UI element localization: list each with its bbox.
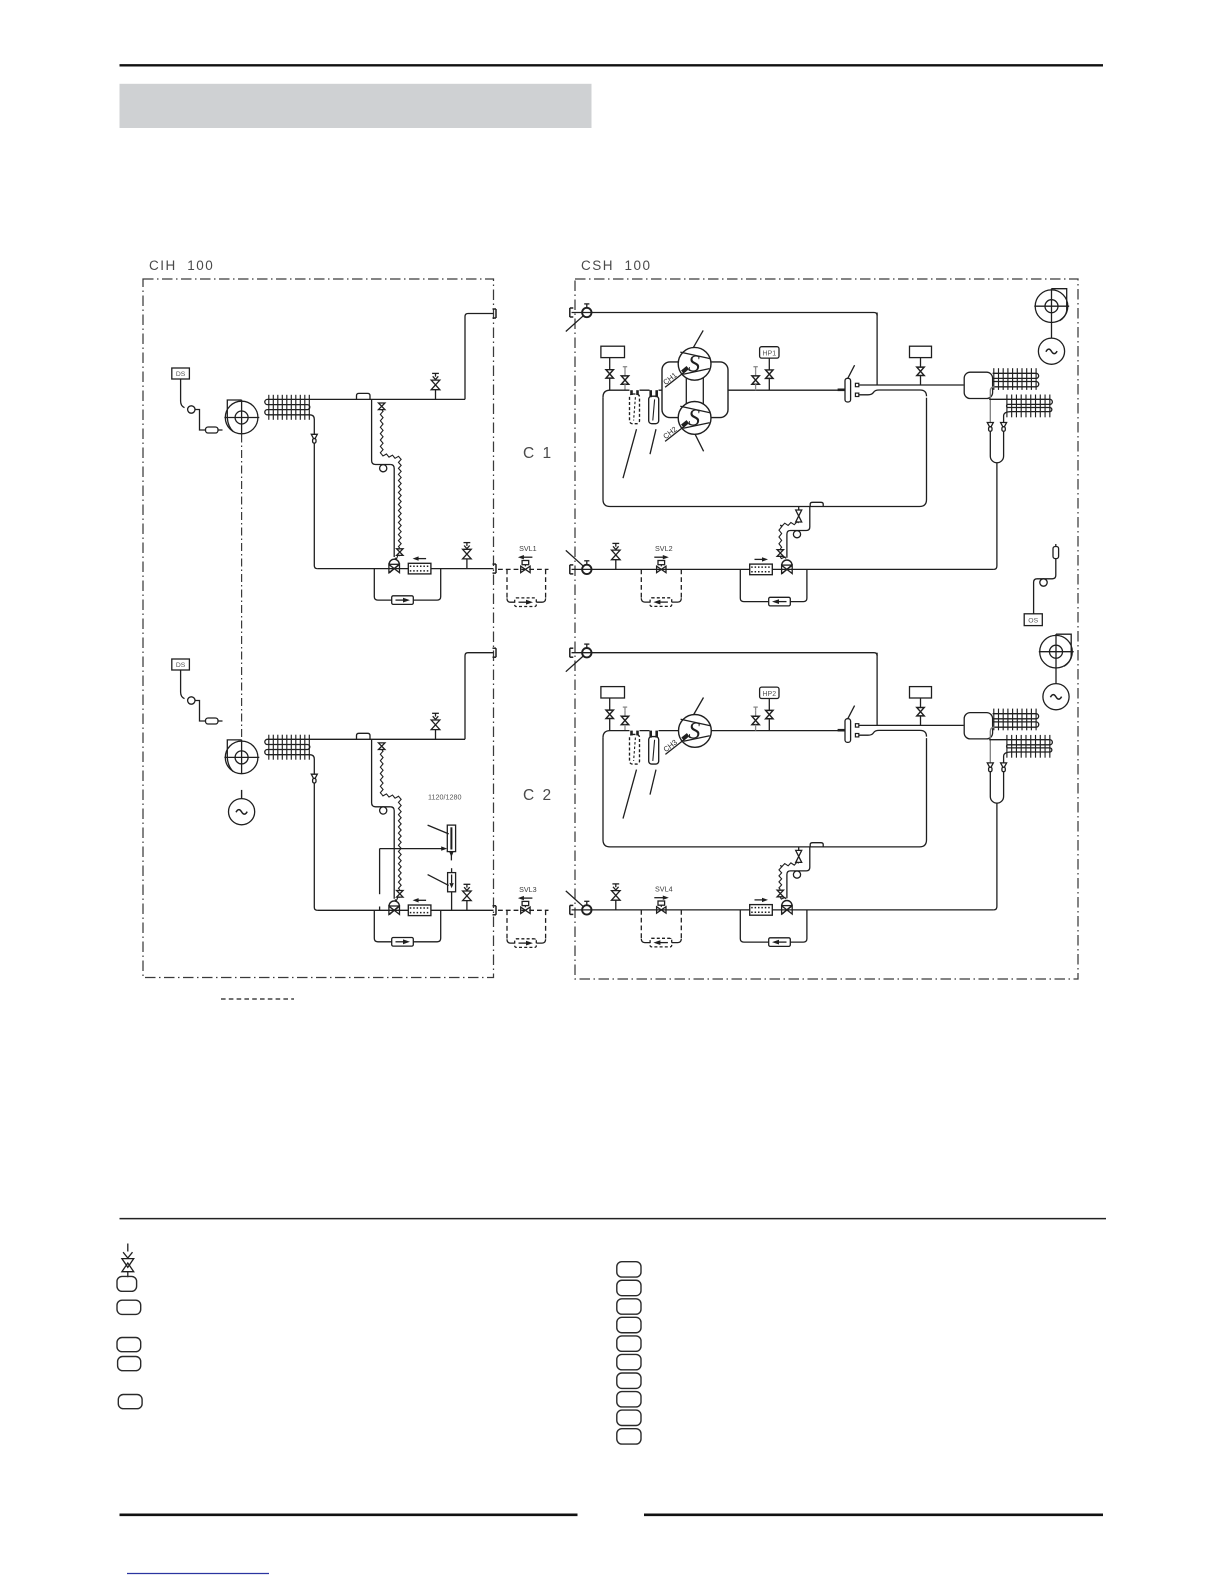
condenser coil bottom row (circuit 1): [989, 395, 1052, 423]
capillary valve (circuit 2): [796, 850, 802, 862]
sight glass on shell bottom (circuit 2): [810, 843, 823, 847]
service valve on liquid line (circuit 2): [612, 884, 621, 910]
check valve at drier (circuit 2): [769, 938, 791, 947]
capillary into TXV head (circuit 1): [395, 555, 400, 558]
compressor mounting frame (circuit 1): [662, 362, 728, 418]
legend key box R8: [617, 1392, 641, 1407]
liquid line to TXV (circuit 2): [390, 807, 394, 899]
HP switch valve (circuit 2): [766, 699, 773, 731]
wire bulb to damper (circuit 1): [195, 410, 206, 431]
pressure switch DS (circuit 1): [172, 368, 190, 379]
charging plate assembly (circuit 2): [838, 706, 859, 743]
distributor right (circuit 2): [1001, 763, 1007, 772]
fan-motor shaft (circuit 2): [1055, 668, 1057, 684]
connector CSH top (circuit 2): [570, 648, 574, 657]
connector CSH bottom (circuit 2): [570, 905, 574, 914]
liquid line to TXV (circuit 1): [390, 465, 394, 558]
check valve bypass at drier (circuit 1): [740, 569, 807, 601]
svg-text:CSH 100: CSH 100: [581, 258, 652, 273]
sight glass dome on hot gas line (circuit 1): [357, 393, 371, 399]
legend key box R4: [617, 1317, 641, 1332]
capillary zigzag (circuit 2): [780, 862, 798, 866]
check valve at SVL3: [515, 939, 537, 948]
condenser fan (circuit 2): [1039, 634, 1074, 668]
solenoid valve SVL3: [518, 885, 537, 914]
liquid line (circuit 1): [572, 568, 994, 570]
bottom rule left: [120, 1514, 578, 1517]
check valve at SVL1: [515, 598, 537, 607]
hot gas line right segment + riser to connection (circuit 1): [465, 314, 494, 400]
solenoid valve SVL1: [518, 544, 537, 573]
HP pressure switch HP2 (circuit 2): [760, 687, 779, 698]
receiver outlet arrow: [449, 852, 453, 861]
legend key box L4: [118, 1357, 141, 1371]
line connector at CIH edge top (circuit 1): [493, 309, 497, 318]
condenser coil top row (circuit 1): [990, 368, 1038, 422]
check valve at SVL2: [650, 598, 672, 607]
condenser fan terminal box (circuit 1): [910, 346, 932, 357]
legend key box R3: [617, 1299, 641, 1314]
scroll compressor CH3: [662, 698, 712, 755]
distributor right (circuit 1): [1001, 423, 1007, 432]
interconnecting line (dashed, field piping) 1: [498, 568, 549, 570]
sight glass on shell bottom (circuit 1): [810, 502, 823, 506]
svg-text:SVL1: SVL1: [519, 544, 537, 553]
wire bulb to damper (circuit 2): [195, 701, 206, 722]
HP switch valve (circuit 1): [766, 358, 773, 390]
solenoid valve SVL2: [654, 544, 672, 573]
service valve on hot gas line (circuit 2): [431, 713, 440, 739]
footer link underline: [127, 1573, 269, 1575]
check valve bypass loop (circuit 1): [374, 569, 440, 601]
service valve (circuit 2): [621, 707, 628, 731]
bypass loop at SVL4: [640, 910, 642, 939]
bottom rule right: [644, 1514, 1103, 1517]
service valve (circuit 1): [621, 367, 628, 391]
svg-text:S: S: [688, 405, 700, 431]
legend key box R7: [617, 1373, 641, 1388]
connector CSH bottom (circuit 1): [570, 565, 574, 574]
liquid line (circuit 2): [572, 909, 994, 911]
distributor left (circuit 1): [987, 423, 993, 432]
thermostatic expansion valve (circuit 1): [782, 560, 793, 574]
hot gas line right segment + riser to connection (circuit 2): [465, 653, 494, 740]
capillary valve at TXV (circuit 2): [397, 891, 403, 898]
condenser feed line (circuit 1): [859, 384, 964, 386]
filter drier (circuit 1): [408, 556, 431, 573]
check valve (circuit 1): [392, 596, 414, 605]
svg-text:CIH 100: CIH 100: [149, 258, 214, 273]
receiver branch line 1120/1280: [380, 848, 443, 850]
suction riser wire (circuit 1): [314, 443, 317, 568]
capillary valve (circuit 1): [796, 510, 802, 522]
liquid shutoff valve (circuit 2): [566, 891, 592, 915]
fan symbol circuit 1: [224, 400, 259, 434]
liquid line into TXV (circuit 2): [787, 871, 791, 898]
TXV bulb (circuit 2): [380, 807, 387, 814]
discharge shutoff valve (circuit 1): [566, 304, 592, 332]
capillary shutoff valve (circuit 2): [379, 743, 385, 750]
port2 line to shell corner (circuit 2): [859, 730, 927, 736]
capillary zigzag (circuit 1): [780, 522, 798, 526]
discharge header line (circuit 2): [572, 652, 875, 654]
charging plate assembly (circuit 1): [838, 365, 859, 402]
service valve on liquid line (circuit 1): [612, 543, 621, 569]
capillary into TXV head (circuit 2): [395, 897, 400, 900]
svg-text:SVL2: SVL2: [655, 544, 673, 553]
receiver vessel 1120: [447, 825, 455, 852]
svg-text:S: S: [688, 718, 700, 744]
receiver outlet to liquid line (circuit 2): [994, 803, 997, 910]
TXV bulb (circuit 1): [793, 531, 800, 538]
damper capsule (circuit 1): [206, 427, 219, 433]
thermostatic expansion valve (circuit 1): [389, 559, 400, 573]
svg-text:OS: OS: [1028, 618, 1038, 625]
evaporator coil (circuit 1): [265, 395, 465, 435]
fan axis dash-dot down to circuit 2 fan (shared axis): [241, 435, 243, 740]
oil sensor OS assembly: [1024, 614, 1042, 626]
legend key box L5: [118, 1395, 142, 1409]
leader to receiver 1280: [428, 875, 449, 886]
svg-text:C 2: C 2: [523, 787, 553, 804]
evaporator coil (circuit 2): [265, 735, 465, 775]
discharge header line (circuit 1): [572, 312, 875, 314]
HP pressure switch HP1 (circuit 1): [760, 347, 779, 358]
filter drier (circuit 2): [408, 898, 431, 916]
fan motor shaft (circuit 2): [241, 790, 243, 799]
DS sensor bulb (circuit 2): [188, 697, 195, 704]
OS sensor bulb: [1040, 579, 1047, 586]
capillary stub from shell (circuit 2): [798, 847, 800, 851]
receiver branch drop (dashed connection): [379, 849, 381, 895]
condenser feed line (circuit 2): [859, 724, 964, 726]
svg-text:S: S: [688, 351, 700, 377]
svg-text:SVL4: SVL4: [655, 885, 673, 894]
bypass loop at SVL2: [640, 569, 642, 598]
svg-text:SVL3: SVL3: [519, 885, 537, 894]
condenser coil bottom row (circuit 2): [989, 735, 1052, 763]
top rule: [120, 64, 1104, 66]
condenser header (circuit 1): [964, 372, 992, 398]
fan line valve (circuit 1): [917, 358, 924, 385]
filter drier (circuit 1): [750, 557, 773, 574]
capillary valve 2 (circuit 1): [777, 550, 783, 557]
scroll compressor CH1: [661, 330, 711, 387]
compressor housing / oil separator outline (circuit 2): [603, 731, 842, 738]
condenser header (circuit 2): [964, 713, 992, 739]
oil level glass (circuit 1): [649, 390, 659, 424]
suction manifold lines (circuit 1): [685, 378, 687, 405]
fan-motor shaft (circuit 1): [1051, 323, 1053, 339]
legend key box L3: [117, 1338, 141, 1352]
schrader port (circuit 1): [752, 367, 759, 391]
port2 line to shell corner (circuit 1): [859, 390, 927, 396]
CIH 100 unit boundary: [143, 279, 494, 978]
funnel circuit 2: [311, 774, 317, 783]
fan line valve (circuit 2): [917, 698, 924, 725]
legend key box R9: [617, 1410, 641, 1425]
distributor left (circuit 2): [987, 763, 993, 772]
thermostatic expansion valve (circuit 2): [389, 901, 400, 915]
title bar: [120, 84, 592, 128]
receiver 1280 outlet stub: [451, 892, 453, 911]
legend key box L2: [117, 1300, 141, 1314]
suction line (circuit 2): [317, 909, 493, 911]
OS wire: [1034, 559, 1056, 614]
svg-text:HP1: HP1: [762, 351, 776, 358]
capillary tube zigzag (circuit 2): [380, 750, 383, 795]
capillary tube zigzag (circuit 1): [380, 410, 383, 455]
connector CSH top (circuit 1): [570, 308, 574, 317]
capillary valve 2 (circuit 2): [777, 890, 783, 897]
schrader port (circuit 2): [752, 707, 759, 731]
TXV bulb (circuit 1): [380, 465, 387, 472]
receiver outlet to liquid line (circuit 1): [994, 463, 997, 570]
fan motor M circuit 2: [229, 799, 255, 825]
condenser coil top row (circuit 2): [990, 709, 1038, 763]
leader lines to cartridges (circuit 2): [623, 770, 637, 819]
merge pipes to liquid outlet (circuit 1): [990, 432, 1003, 463]
legend key box R5: [617, 1336, 641, 1351]
capillary shutoff valve (circuit 1): [379, 403, 385, 410]
service valve on liquid line (circuit 1): [463, 543, 472, 569]
check valve at drier (circuit 1): [769, 597, 791, 606]
line connector at CIH edge bottom (circuit 1): [493, 564, 497, 573]
svg-text:HP2: HP2: [762, 691, 776, 698]
leader lines to cartridges (circuit 1): [623, 429, 637, 478]
capillary valve at TXV (circuit 1): [397, 549, 403, 556]
line connector at CIH edge top (circuit 2): [493, 648, 497, 657]
liquid line drop (circuit 1): [372, 399, 391, 464]
merge pipes to liquid outlet (circuit 2): [990, 772, 1003, 803]
liquid shutoff valve (circuit 1): [566, 550, 592, 574]
DS sensor bulb (circuit 1): [188, 406, 195, 413]
legend key box R6: [617, 1354, 641, 1369]
legend: service valve symbol: [122, 1244, 134, 1278]
TXV bulb (circuit 2): [793, 871, 800, 878]
liquid drop from shell (circuit 2): [791, 847, 810, 871]
sight glass dome on hot gas line (circuit 2): [357, 733, 371, 739]
stub from damper (circuit 2): [218, 720, 223, 722]
CSH 100 unit boundary: [575, 279, 1078, 979]
fan symbol circuit 2: [224, 740, 259, 774]
check valve (circuit 2): [392, 938, 414, 947]
discharge shutoff valve (circuit 2): [566, 644, 592, 672]
svg-text:1120/1280: 1120/1280: [428, 793, 461, 802]
condenser fan motor (circuit 1): [1038, 338, 1064, 364]
suction riser wire (circuit 2): [314, 783, 317, 910]
bypass loop at SVL3: [506, 910, 508, 939]
service valve on hot gas line (circuit 1): [431, 373, 440, 399]
oil filter cartridge dashed (circuit 1): [630, 390, 640, 424]
service valve on liquid line (circuit 2): [463, 884, 472, 910]
condenser fan terminal box (circuit 2): [910, 687, 932, 698]
interconnecting line (dashed, field piping) 3: [498, 909, 549, 911]
liquid line drop (circuit 2): [372, 739, 391, 807]
suction line (circuit 1): [317, 568, 493, 570]
svg-text:DS: DS: [176, 371, 186, 378]
pressure switch DS (circuit 2): [172, 659, 190, 670]
line connector at CIH edge bottom (circuit 2): [493, 906, 497, 915]
condenser fan (circuit 1): [1034, 289, 1069, 323]
damper capsule (circuit 2): [206, 718, 219, 724]
bottom rule 1: [120, 1218, 1107, 1220]
stub from damper (circuit 1): [218, 429, 223, 431]
legend key box R10: [617, 1429, 641, 1444]
condenser fan motor (circuit 2): [1043, 684, 1069, 710]
svg-text:DS: DS: [176, 662, 186, 669]
legend key box R1: [617, 1262, 641, 1277]
discharge shutoff (circuit 1): [606, 358, 613, 391]
accessory dashed mark below CIH box: [221, 998, 294, 1000]
discharge shutoff (circuit 2): [606, 698, 613, 731]
solenoid valve SVL4: [654, 885, 672, 914]
thermostatic expansion valve (circuit 2): [782, 900, 793, 914]
compressor terminal box (circuit 1): [601, 346, 625, 357]
DS capillary wire (circuit 2): [181, 670, 185, 699]
bypass loop at SVL1: [506, 569, 508, 598]
check valve at SVL4: [650, 938, 672, 947]
capillary stub from shell (circuit 1): [798, 507, 800, 511]
check valve bypass at drier (circuit 2): [740, 910, 807, 942]
scroll compressor CH2: [661, 402, 711, 452]
oil filter cartridge dashed (circuit 2): [630, 731, 640, 765]
compressor terminal box (circuit 2): [601, 687, 625, 698]
OS sensor capsule: [1053, 544, 1059, 559]
liquid line into TXV (circuit 1): [787, 531, 791, 558]
legend key box L1: [117, 1276, 137, 1291]
check valve bypass loop (circuit 2): [374, 910, 440, 942]
svg-text:C 1: C 1: [523, 445, 553, 462]
oil level glass (circuit 2): [649, 731, 659, 765]
filter drier (circuit 2): [750, 898, 773, 915]
legend key box R2: [617, 1280, 641, 1295]
leader to receiver 1120: [428, 825, 449, 834]
liquid drop from shell (circuit 1): [791, 507, 810, 531]
funnel circuit 1: [311, 434, 317, 443]
DS capillary wire (circuit 1): [181, 379, 185, 408]
compressor housing / oil separator outline (circuit 1): [603, 390, 842, 397]
receiver vessel 1280: [448, 868, 456, 892]
